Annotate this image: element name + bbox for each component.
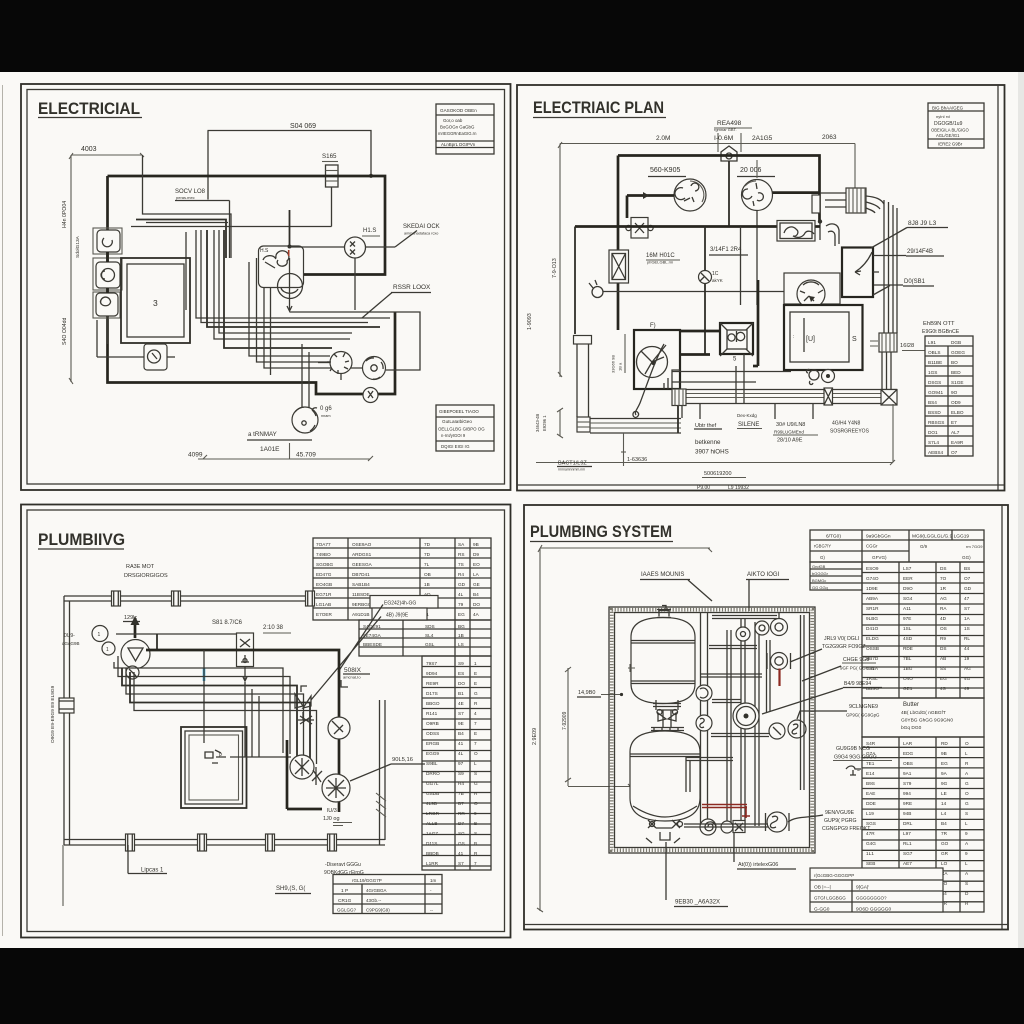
svg-text:G74O: G74O	[866, 576, 879, 581]
svg-text:D9: D9	[473, 552, 479, 557]
svg-text:7-92909: 7-92909	[562, 711, 568, 730]
svg-text:A: A	[965, 771, 969, 776]
big panel rectangle	[842, 248, 873, 298]
svg-text:994: 994	[903, 791, 911, 796]
svg-text:D41O: D41O	[866, 626, 879, 631]
svg-text:R4: R4	[458, 572, 464, 577]
svg-text:2A1G5: 2A1G5	[752, 135, 773, 142]
bottom dim line panel2	[536, 462, 893, 464]
svg-text:DS: DS	[940, 646, 947, 651]
svg-text:O4O: O4O	[903, 676, 913, 681]
svg-text:1: 1	[98, 632, 101, 638]
svg-text:Gor,o oab: Gor,o oab	[443, 118, 463, 123]
drop pipe with blue mark	[203, 650, 205, 743]
svg-text:RL1: RL1	[903, 841, 912, 846]
svg-text:9ERBGG: 9ERBGG	[352, 602, 372, 607]
svg-text:1GS: 1GS	[928, 370, 937, 375]
svg-text:9O6D GGGGG0: 9O6D GGGGG0	[856, 907, 892, 913]
svg-text:OB: OB	[424, 572, 431, 577]
svg-text:4E: 4E	[458, 701, 464, 706]
svg-text:1L1: 1L1	[866, 851, 874, 856]
svg-text:1-9093: 1-9093	[527, 313, 533, 330]
tank2 dim lead	[568, 786, 631, 788]
svg-text:L: L	[965, 751, 968, 756]
pump P1 with triangle	[121, 640, 150, 669]
wire fan to junction box	[680, 330, 720, 333]
svg-text:G4G: G4G	[866, 841, 876, 846]
svg-text:S4O O04dd: S4O O04dd	[62, 317, 68, 345]
svg-text:betkenne: betkenne	[695, 439, 721, 446]
svg-text:ALnBprL DGIPVn: ALnBprL DGIPVn	[441, 142, 476, 147]
relay box K1	[631, 218, 648, 239]
svg-text:9G: 9G	[941, 781, 948, 786]
svg-text:ED47G: ED47G	[316, 572, 332, 577]
valve box drop	[244, 667, 246, 681]
bottom wall column ticks	[126, 834, 135, 851]
svg-text:43Gb.--: 43Gb.--	[366, 898, 382, 903]
vertical feed through cluster	[289, 210, 291, 247]
motor M3 feed	[704, 227, 706, 271]
svg-text:7B: 7B	[458, 791, 464, 796]
bundle extra horizontal	[146, 222, 228, 224]
svg-text:9A: 9A	[941, 771, 948, 776]
main thick loop wire	[108, 176, 396, 394]
svg-text:OS: OS	[940, 626, 947, 631]
svg-text:GGGGGGGO?: GGGGGGGO?	[856, 896, 887, 901]
wire cluster to connector X	[290, 246, 345, 248]
svg-text:BS: BS	[964, 566, 970, 571]
svg-text:ELECTRIAIC PLAN: ELECTRIAIC PLAN	[533, 98, 664, 117]
svg-text:SGS: SGS	[866, 821, 876, 826]
thick feeder wire right	[773, 191, 821, 194]
svg-text:2.0M: 2.0M	[656, 135, 670, 142]
svg-text:EG242)4h-GG: EG242)4h-GG	[384, 601, 416, 607]
svg-text:O9RB: O9RB	[426, 721, 439, 726]
panel3 outer frame	[21, 505, 511, 938]
svg-text:EG: EG	[941, 761, 948, 766]
svg-text:H1.S: H1.S	[363, 228, 376, 234]
svg-text:F): F)	[650, 323, 656, 329]
panel3 schedule table upper grid	[313, 538, 491, 620]
svg-text:3/14F1 2R4: 3/14F1 2R4	[710, 247, 742, 253]
svg-text:47R: 47R	[866, 831, 875, 836]
svg-text:7L: 7L	[424, 562, 430, 567]
faucet glyph	[846, 766, 861, 775]
svg-text:JRL9 V0( DGLI: JRL9 V0( DGLI	[824, 636, 859, 642]
connector A leads	[318, 362, 330, 364]
svg-text:G: G	[474, 691, 478, 696]
svg-text:S: S	[965, 881, 968, 886]
svg-text:RSSR LOOX: RSSR LOOX	[393, 284, 431, 291]
svg-text:nyInI rvI: nyInI rvI	[936, 114, 950, 119]
svg-text:G: G	[965, 781, 969, 786]
svg-text:45.709: 45.709	[296, 452, 316, 459]
bundle wire row 3	[131, 226, 332, 228]
svg-text:ESO9: ESO9	[866, 566, 879, 571]
svg-text:rGL19/GGG7P: rGL19/GGG7P	[352, 878, 382, 883]
top gauges pair	[755, 621, 769, 635]
svg-text:GG7L: GG7L	[426, 781, 439, 786]
svg-text:SG: SG	[458, 831, 465, 836]
nested corner conduits	[664, 370, 680, 389]
wavy leader to senuvlise	[788, 815, 823, 822]
svg-text:ODSS: ODSS	[426, 731, 439, 736]
wire connector X1 right + leader SKEDA	[366, 246, 396, 248]
svg-text:GIBEPOEEL TIAOO: GIBEPOEEL TIAOO	[439, 409, 479, 414]
pipe pair mid right	[766, 640, 768, 712]
svg-text:S: S	[474, 771, 477, 776]
svg-text:9CLMGNE9: 9CLMGNE9	[849, 704, 878, 710]
svg-text:G: G	[965, 801, 969, 806]
svg-text:S: S	[852, 336, 857, 343]
lamp big circle	[278, 274, 303, 299]
svg-text:B: B	[474, 821, 477, 826]
connector B	[363, 357, 386, 380]
butterfly valve	[771, 653, 788, 670]
svg-text:dGqG9B: dGqG9B	[62, 641, 80, 646]
svg-text:SA: SA	[458, 542, 465, 547]
svg-text:RBSGS: RBSGS	[928, 420, 944, 425]
svg-text:LE: LE	[941, 791, 947, 796]
svg-text:L: L	[965, 821, 968, 826]
svg-text:AGL/GE/IG1: AGL/GE/IG1	[936, 133, 960, 138]
gauge on riser A upper	[696, 685, 712, 701]
svg-text:P: P	[219, 753, 223, 759]
panel3 schedule right grid	[422, 656, 491, 870]
svg-text:1-63636: 1-63636	[627, 457, 647, 463]
svg-text:1B a: 1B a	[618, 362, 623, 371]
fan circle	[637, 347, 668, 378]
svg-text:4SD: 4SD	[903, 636, 913, 641]
svg-text:O: O	[965, 741, 969, 746]
svg-text:H.S: H.S	[260, 248, 269, 254]
svg-text:PLUMBING SYSTEM: PLUMBING SYSTEM	[530, 523, 672, 541]
left wall band panel3	[63, 596, 65, 845]
svg-text:4S: 4S	[940, 686, 946, 691]
svg-text:SH9,(S, G(: SH9,(S, G(	[276, 886, 305, 892]
svg-text:ES: ES	[458, 671, 464, 676]
svg-text:SS: SS	[940, 666, 946, 671]
svg-text:3: 3	[153, 298, 158, 308]
motor M1 feed wire	[627, 194, 674, 197]
svg-text:44: 44	[964, 646, 970, 651]
svg-text:IAAES MOUNIS: IAAES MOUNIS	[641, 572, 684, 578]
valve V3 with S	[788, 720, 806, 738]
terminal strip top right	[846, 188, 866, 213]
right wall panel3	[379, 700, 381, 845]
junction dot at fuse feed	[369, 174, 373, 178]
pump P2 circle	[290, 755, 314, 779]
bottom wall band panel2	[674, 389, 897, 391]
svg-text:S79: S79	[903, 781, 912, 786]
pipe horizontals near top	[712, 615, 777, 617]
svg-text:R: R	[474, 701, 478, 706]
svg-text:E9G0t BGBnCE: E9G0t BGBnCE	[922, 329, 960, 335]
svg-text:33G66 9B: 33G66 9B	[611, 355, 616, 373]
svg-text:RA: RA	[940, 606, 947, 611]
svg-text:4099: 4099	[188, 452, 203, 459]
svg-text:S7: S7	[458, 861, 464, 866]
svg-text:GASOKOD OBEn: GASOKOD OBEn	[440, 108, 477, 113]
svg-text:1 P: 1 P	[341, 888, 348, 894]
terminal strip bend wires	[866, 196, 884, 213]
svg-text:E: E	[474, 671, 477, 676]
svg-text:LO: LO	[941, 861, 948, 866]
svg-text:1: 1	[106, 647, 109, 653]
svg-text:16M H01C: 16M H01C	[646, 253, 675, 259]
svg-text:7D: 7D	[424, 552, 431, 557]
svg-text:7: 7	[474, 721, 477, 726]
tank T1	[631, 618, 695, 704]
svg-text:A91D1B: A91D1B	[352, 612, 369, 617]
svg-text:S7: S7	[964, 606, 970, 611]
panel4 outer frame	[524, 505, 1008, 930]
feeder through receptacles	[106, 252, 109, 262]
svg-text:AL7: AL7	[951, 430, 960, 435]
bottom dimension line	[198, 458, 370, 460]
svg-text:RE9R: RE9R	[426, 681, 439, 686]
svg-text:E14: E14	[866, 771, 875, 776]
pilot circles under room	[809, 370, 819, 380]
svg-text:GTGf LGGBGG: GTGf LGGBGG	[814, 896, 846, 901]
svg-text:9D94: 9D94	[426, 671, 438, 676]
riser pipes pair C	[740, 618, 742, 826]
svg-text:a tRNMAY: a tRNMAY	[248, 431, 277, 438]
svg-text:RA3E MOT: RA3E MOT	[126, 564, 155, 570]
parts table panel2	[925, 336, 973, 456]
svg-text:AG: AG	[940, 596, 947, 601]
svg-text:29/14F4B: 29/14F4B	[907, 249, 933, 255]
svg-text:RDE: RDE	[903, 646, 913, 651]
panel4 butter note box	[862, 698, 984, 737]
svg-text:DGB: DGB	[951, 340, 961, 345]
left wall column panel2	[574, 336, 592, 345]
svg-text:500619200: 500619200	[704, 471, 732, 477]
svg-text:S9: S9	[458, 771, 464, 776]
lamp L2 bottom	[292, 407, 318, 433]
tank T2 flanged top	[651, 728, 684, 731]
svg-text:BB7D: BB7D	[866, 656, 879, 661]
svg-text:41: 41	[458, 741, 464, 746]
pipe horizontals in room	[709, 645, 757, 647]
svg-text:20 006: 20 006	[740, 167, 762, 174]
receptacle box column outline	[93, 228, 122, 254]
riser pipes pair A	[700, 612, 702, 826]
svg-text:9O: 9O	[951, 390, 958, 395]
svg-text:mrIEGGRnEaGIG.rn: mrIEGGRnEaGIG.rn	[438, 131, 477, 136]
gauge on riser C	[736, 627, 750, 641]
left edge hairline	[2, 85, 4, 936]
svg-text:AG: AG	[964, 666, 971, 671]
svg-text:RD: RD	[941, 741, 948, 746]
svg-text:bGq DG0: bGq DG0	[901, 725, 922, 731]
svg-text:ammanadataca rcxo: ammanadataca rcxo	[404, 232, 438, 236]
svg-text:S81 8.7/C6: S81 8.7/C6	[212, 620, 243, 626]
panel1 title block TB2	[436, 405, 494, 451]
dim drop 2063	[854, 144, 856, 189]
svg-text:ELBO: ELBO	[951, 410, 964, 415]
svg-text:1: 1	[474, 661, 477, 666]
svg-text:EhB9N OTT: EhB9N OTT	[923, 321, 955, 327]
svg-text:B11BE: B11BE	[928, 360, 942, 365]
bus left drop	[574, 227, 576, 335]
svg-text:EG71R: EG71R	[316, 592, 332, 597]
svg-text:G: G	[474, 781, 478, 786]
svg-text:GFVG): GFVG)	[872, 555, 887, 560]
svg-text:S: S	[474, 831, 477, 836]
svg-text:0 g6: 0 g6	[320, 406, 332, 412]
panel4 big parts grid	[862, 562, 984, 698]
main thick feeder top	[618, 156, 820, 222]
right conduit bundle	[883, 200, 885, 333]
svg-text:B4: B4	[941, 821, 947, 826]
svg-text:I-0.6M: I-0.6M	[714, 135, 734, 142]
svg-text:EG: EG	[940, 676, 947, 681]
svg-text:90L5,16: 90L5,16	[392, 757, 413, 763]
pump P3 circle	[322, 774, 350, 802]
svg-text:OD9: OD9	[951, 400, 961, 405]
svg-text:P9.00: P9.00	[697, 485, 710, 491]
connector A	[330, 352, 352, 374]
svg-text:O7: O7	[964, 576, 971, 581]
cap block on feeder	[812, 195, 820, 213]
panel3 sub table	[333, 875, 442, 914]
svg-text:7R: 7R	[941, 831, 948, 836]
pipe pair along right wall	[800, 615, 802, 790]
svg-text:79S7: 79S7	[426, 661, 437, 666]
svg-text:2:10 38: 2:10 38	[263, 625, 284, 631]
svg-text:DO: DO	[458, 681, 465, 686]
svg-text:GG GGq: GG GGq	[812, 585, 828, 590]
room rect panel3	[181, 727, 247, 808]
panel3 inner frame	[27, 510, 505, 932]
bundle left vertical 5	[185, 232, 187, 310]
svg-text:6/TG0): 6/TG0)	[826, 534, 841, 540]
svg-text:0U9-: 0U9-	[64, 633, 75, 639]
svg-text:L: L	[965, 861, 968, 866]
panel2 title block	[928, 103, 984, 148]
svg-text:4G/H4 Y4N8: 4G/H4 Y4N8	[832, 421, 860, 427]
svg-text:bGGGGr: bGGGGr	[812, 571, 829, 576]
svg-text:DRSGIORGIGOS: DRSGIORGIGOS	[124, 573, 168, 579]
svg-text:11BSDE: 11BSDE	[352, 592, 370, 597]
svg-text:R141: R141	[426, 711, 438, 716]
drop leaders to labels	[699, 404, 701, 419]
dim drop below wall	[62, 845, 64, 906]
svg-text:4: 4	[474, 711, 477, 716]
svg-text:9E: 9E	[458, 721, 464, 726]
svg-text:2.9E09: 2.9E09	[532, 728, 538, 745]
svg-text:7D: 7D	[424, 542, 431, 547]
room rect panel2	[784, 305, 863, 370]
svg-text:49: 49	[964, 686, 970, 691]
red pipe run	[702, 805, 747, 808]
transformer box X1	[609, 250, 629, 283]
svg-text:EAE: EAE	[866, 791, 875, 796]
svg-text:BGMGc: BGMGc	[812, 578, 826, 583]
svg-text:4G: 4G	[964, 676, 971, 681]
svg-text:EG: EG	[458, 612, 465, 617]
gauge circle G3	[328, 717, 350, 739]
svg-text:1A: 1A	[964, 616, 971, 621]
pump P1 small circle	[126, 666, 139, 679]
receptacle O2	[96, 262, 120, 288]
svg-text:B7: B7	[458, 801, 464, 806]
svg-text:OB |=--|: OB |=--|	[814, 885, 831, 891]
panel2 inner frame lines	[997, 85, 999, 490]
svg-text:BG: BG	[458, 624, 465, 629]
svg-text:4L9B: 4L9B	[426, 801, 437, 806]
svg-text:S7L4: S7L4	[928, 440, 939, 445]
svg-text:DRRO: DRRO	[426, 771, 440, 776]
svg-text:GSL: GSL	[425, 642, 435, 647]
svg-text:LS7: LS7	[903, 566, 912, 571]
left wall column tick	[59, 698, 74, 713]
right edge shading	[1018, 72, 1024, 948]
svg-text:S04 069: S04 069	[290, 123, 316, 130]
long leader diagonals from table	[311, 605, 383, 701]
svg-text:rmrnamnnrnm.nm: rmrnamnnrnm.nm	[558, 468, 585, 472]
svg-text:SDS: SDS	[425, 624, 435, 629]
lower wall band left	[590, 418, 681, 420]
svg-text:AEBS4: AEBS4	[928, 450, 944, 455]
thick drop pipe left of room	[286, 740, 289, 809]
svg-text:GEESGA: GEESGA	[352, 562, 373, 567]
main pipe thick L	[146, 650, 339, 812]
svg-text:7O: 7O	[940, 576, 947, 581]
svg-text:MG9(LGGLGL/G.9 LGG19: MG9(LGGLGL/G.9 LGG19	[912, 534, 969, 540]
panel1 outer frame	[21, 84, 511, 490]
fan unit square	[634, 330, 680, 389]
svg-text:7E1: 7E1	[866, 761, 875, 766]
motor M4 under panel rect	[784, 273, 840, 304]
panel3 schedule mid grid	[359, 620, 491, 656]
svg-text:4L: 4L	[458, 751, 464, 756]
wall column ticks top	[112, 591, 121, 606]
lamp cluster arc glyphs	[263, 251, 289, 268]
svg-text:E9296 1: E9296 1	[542, 415, 547, 431]
svg-text:GE: GE	[473, 582, 480, 587]
svg-text:GOEG: GOEG	[951, 350, 965, 355]
svg-text:CR1G: CR1G	[338, 898, 352, 904]
svg-text:R: R	[965, 761, 969, 766]
svg-text:L9 19932: L9 19932	[728, 485, 749, 491]
svg-text:GR: GR	[941, 851, 949, 856]
bundle wire row 1	[143, 155, 232, 258]
nested pipe bundle	[114, 662, 283, 753]
bundle left vertical 7	[219, 230, 352, 333]
left dimension line	[559, 144, 561, 378]
svg-text:EGG9: EGG9	[426, 751, 439, 756]
svg-text:lU/3: lU/3	[327, 808, 337, 814]
svg-text:S7: S7	[458, 711, 464, 716]
svg-text:47: 47	[964, 596, 970, 601]
svg-text:GO: GO	[941, 841, 949, 846]
svg-text:1SL: 1SL	[903, 626, 912, 631]
svg-text:EA9R: EA9R	[951, 440, 964, 445]
svg-text:A11: A11	[903, 606, 911, 611]
svg-text:4003: 4003	[81, 146, 97, 153]
thick feeder left drop	[617, 156, 620, 331]
svg-text:16l28: 16l28	[900, 343, 914, 349]
svg-text:E7: E7	[951, 420, 957, 425]
svg-text:1C: 1C	[712, 271, 719, 277]
svg-text:PLUMBIIVG: PLUMBIIVG	[38, 530, 125, 549]
svg-text:E: E	[474, 731, 477, 736]
svg-text:94B: 94B	[903, 811, 911, 816]
svg-text:BBGO: BBGO	[426, 701, 440, 706]
svg-text:CGNGPG9 FREOKT: CGNGPG9 FREOKT	[822, 826, 871, 832]
